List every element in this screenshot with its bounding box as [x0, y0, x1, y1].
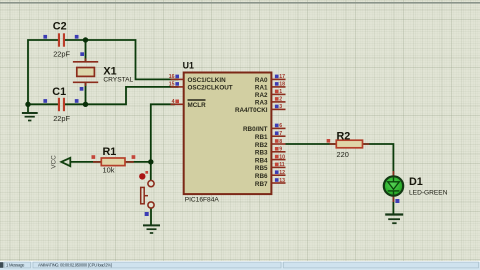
pin 9 RB3	[255, 147, 286, 157]
wire C1 left to plate	[28, 103, 58, 105]
wire C2 left to plate	[28, 40, 58, 112]
pin 10 RB4	[255, 154, 286, 164]
wire VCC arrow to R1 and R1 to junction	[71, 161, 151, 163]
pin 3 RA4/T0CKI	[235, 104, 286, 114]
svg-text:ANIMATING: 00:00:02.950000 (CP: ANIMATING: 00:00:02.950000 (CPU load 2%)	[38, 263, 113, 268]
wire R2 to LED	[363, 144, 394, 176]
push button	[139, 171, 154, 216]
pin 11 RB5	[255, 162, 286, 172]
wire RB2 to R2	[286, 143, 337, 145]
capacitor C2	[43, 21, 78, 59]
node junction C2/crystal	[83, 37, 88, 42]
ground (LED)	[385, 215, 403, 224]
wire C2 right plate to corner, down, to OSC1 pin	[65, 40, 179, 79]
op chip U1 PIC16F84A	[183, 61, 272, 204]
pin 16 OSC1/CLKIN	[169, 74, 226, 84]
LED D1	[384, 171, 448, 203]
pin 8 RB2	[255, 139, 286, 149]
pin 17 RA0	[255, 74, 286, 84]
pin 1 RA2	[255, 89, 286, 99]
pin 12 RB6	[255, 170, 286, 180]
pin 15 OSC2/CLKOUT	[169, 82, 233, 92]
wire crystal bottom to C1 net	[85, 83, 87, 105]
pin 13 RB7	[255, 178, 286, 188]
wire crystal top from C2 junction	[85, 40, 87, 62]
pin 4 MCLR	[171, 99, 207, 109]
ground (button)	[143, 225, 160, 233]
crystal X1	[73, 52, 134, 90]
wire MCLR pin to vertical, down to button	[151, 104, 175, 180]
wire button bottom to ground	[150, 208, 152, 224]
svg-text:1 Message: 1 Message	[6, 263, 25, 268]
wire LED to ground	[392, 196, 394, 214]
resistor R1	[92, 146, 136, 175]
wire C1 right plate to crystal junction, right and up to OSC2 pin	[65, 87, 179, 104]
ground (left rail)	[22, 113, 38, 121]
node junction R1/MCLR/button	[148, 159, 153, 164]
pin 18 RA1	[255, 82, 286, 92]
window top border	[0, 2, 480, 4]
node junction left rail/C1	[25, 102, 30, 107]
power terminal VCC	[51, 155, 71, 169]
capacitor C1	[43, 86, 78, 123]
resistor R2	[327, 131, 370, 159]
pin 7 RB1	[255, 131, 286, 141]
pin 2 RA3	[255, 97, 286, 107]
node junction C1/crystal	[83, 102, 88, 107]
pin 6 RB0/INT	[243, 123, 286, 133]
